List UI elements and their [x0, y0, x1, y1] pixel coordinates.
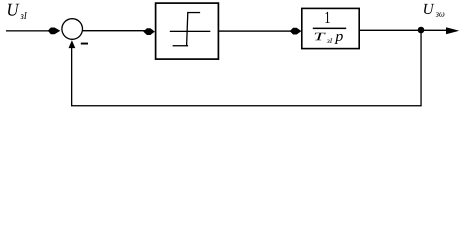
integrator numerator 1 — [325, 12, 329, 23]
node label U_ЗІ (input signal) — [8, 4, 27, 19]
wire relay block to integrator block — [219, 30, 295, 31]
relay block (nonlinear element) — [156, 3, 219, 59]
relay characteristic: switching vertical — [187, 12, 188, 46]
summing junction circle — [62, 19, 83, 40]
node (branch point) on output wire — [418, 27, 425, 34]
feedback wire: up to summing junction — [71, 46, 72, 106]
arrowhead at summing junction input — [48, 28, 61, 35]
feedback wire: down from node — [420, 30, 421, 106]
relay characteristic: upper output level — [187, 12, 200, 13]
integrator fraction bar — [313, 28, 346, 30]
relay characteristic: input axis — [170, 31, 211, 32]
wire summing junction to relay block — [83, 30, 147, 31]
integrator block 1/(T_ЗІ p) — [302, 8, 359, 48]
minus sign at feedback input — [81, 43, 88, 45]
node label U_зω (output signal) — [424, 4, 444, 17]
arrowhead at relay block input — [143, 28, 155, 35]
wire integrator to output — [359, 30, 448, 31]
arrowhead into summing junction (feedback) — [69, 40, 76, 48]
relay characteristic: lower output level — [173, 45, 189, 46]
feedback wire: bottom horizontal — [71, 105, 422, 106]
integrator denominator T_ЗІ p — [315, 33, 343, 44]
wire input to summing junction — [6, 30, 55, 31]
arrowhead at integrator block input — [290, 28, 302, 35]
output arrowhead — [446, 27, 459, 34]
